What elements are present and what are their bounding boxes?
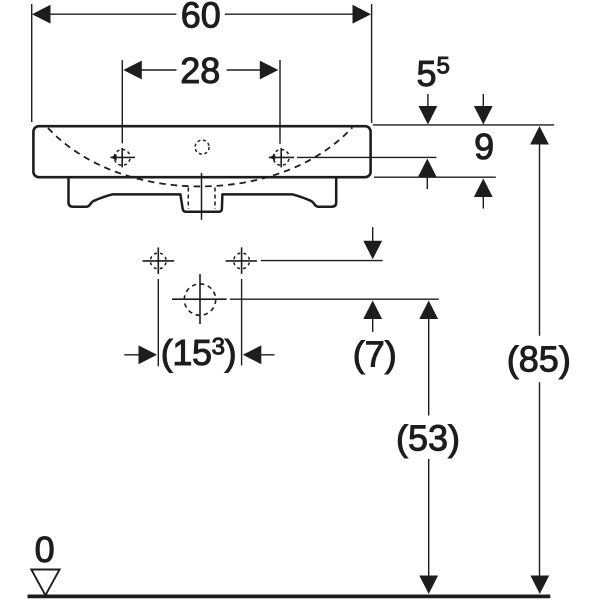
svg-text:60: 60	[181, 0, 221, 35]
svg-text:0: 0	[35, 529, 55, 570]
svg-text:9: 9	[474, 126, 494, 167]
svg-text:28: 28	[180, 50, 220, 91]
svg-text:(53): (53)	[396, 418, 460, 459]
svg-text:(7): (7)	[353, 334, 397, 375]
svg-text:(85): (85)	[507, 339, 571, 380]
svg-text:(153): (153)	[161, 332, 236, 373]
svg-text:55: 55	[417, 53, 450, 95]
